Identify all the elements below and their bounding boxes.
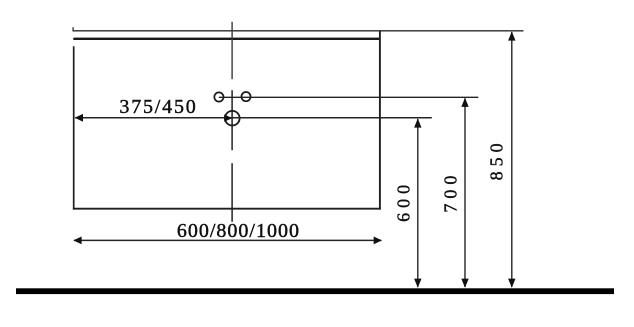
svg-text:375/450: 375/450 <box>119 96 197 118</box>
arrowhead right of 600/800/1000 <box>374 237 382 245</box>
tap holes reference line <box>219 96 478 98</box>
cabinet bottom edge <box>73 208 381 210</box>
arrowhead top of 850 <box>508 31 515 40</box>
vertical centerline segment upper <box>231 22 233 79</box>
dimension text 600/800/1000 <box>177 220 300 242</box>
arrowhead right of 375/450 at drain center <box>224 114 232 121</box>
countertop top edge line <box>73 30 524 32</box>
vertical centerline segment middle <box>231 90 233 150</box>
tap hole circle right <box>241 92 250 101</box>
arrowhead left of 375/450 <box>75 114 83 122</box>
countertop left end tick <box>72 27 74 31</box>
arrowhead left of 600/800/1000 <box>73 237 81 245</box>
dimension line 600 vertical <box>417 119 419 287</box>
dimension text 375/450 <box>119 96 197 118</box>
arrowhead top of 600 <box>414 118 421 127</box>
arrowhead bottom of 600 <box>414 279 421 288</box>
arrowhead top of 700 <box>461 98 468 107</box>
svg-text:600/800/1000: 600/800/1000 <box>177 220 300 242</box>
drain hole circle <box>225 111 240 126</box>
dimension text 700 vertical <box>440 171 460 213</box>
dimension text 850 vertical <box>487 138 507 180</box>
arrowhead bottom of 850 <box>508 279 515 288</box>
dimension text 600 vertical <box>394 180 414 222</box>
dimension line 375/450 <box>75 117 432 119</box>
tap hole circle left <box>214 92 223 101</box>
svg-text:700: 700 <box>440 171 460 213</box>
floor line <box>16 288 614 294</box>
dimension line 700 vertical <box>464 98 466 287</box>
dimension line 600/800/1000 <box>74 239 381 241</box>
svg-text:600: 600 <box>394 180 414 222</box>
countertop front thick edge <box>73 38 380 40</box>
cabinet right edge <box>379 30 381 209</box>
dimension line 850 vertical <box>511 32 513 287</box>
vertical centerline segment lower <box>231 163 233 222</box>
arrowhead bottom of 700 <box>461 279 468 288</box>
svg-text:850: 850 <box>487 138 507 180</box>
cabinet left edge <box>73 46 75 209</box>
